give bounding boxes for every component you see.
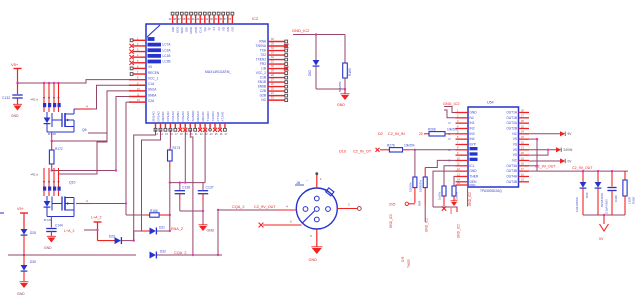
- resistor R82: [442, 186, 446, 196]
- junction V5+ rail: [16, 82, 18, 84]
- svg-text:100R/5%: 100R/5%: [419, 180, 423, 192]
- svg-text:NC: NC: [261, 98, 266, 102]
- wire IC2 left pin row to Q10 rail: [59, 91, 130, 174]
- svg-text:IN3: IN3: [470, 132, 475, 136]
- wire U54 pin 11 to R82: [444, 166, 456, 186]
- svg-text:D31: D31: [159, 225, 165, 229]
- junction clamp bottom: [344, 88, 346, 90]
- svg-text:T1AOO: T1AOO: [206, 111, 210, 122]
- svg-text:D62: D62: [308, 70, 312, 76]
- capacitor C144: [50, 217, 52, 228]
- net 2V5 stub: [405, 202, 408, 205]
- svg-text:D28: D28: [30, 231, 36, 235]
- svg-text:OS: OS: [231, 27, 235, 31]
- svg-text:BZX84C10: BZX84C10: [600, 192, 604, 207]
- svg-text:OUT2B: OUT2B: [506, 126, 517, 130]
- resistor pack drops to Q6: [43, 83, 45, 97]
- wire CQA_2 riser to J6: [217, 210, 219, 255]
- IC2 right pins with pads: [268, 41, 285, 43]
- op U54 body: [468, 107, 519, 187]
- svg-text:GN: GN: [226, 27, 230, 32]
- svg-text:AGNDO: AGNDO: [191, 110, 195, 122]
- svg-text:THER: THER: [407, 259, 411, 268]
- svg-text:ICL: ICL: [470, 164, 475, 168]
- svg-text:20: 20: [419, 132, 423, 136]
- ground GND bottom left: [20, 283, 28, 288]
- svg-text:C137: C137: [206, 186, 214, 190]
- power arrow 9V: [560, 131, 565, 136]
- op IC2 body: [146, 24, 268, 123]
- svg-text:NC: NC: [470, 116, 475, 120]
- svg-text:−: −: [306, 179, 308, 183]
- ground GND below C132: [14, 106, 22, 111]
- svg-text:THER: THER: [470, 174, 479, 178]
- diode D33 at Q6 source: [46, 112, 48, 118]
- net label C2_9V_OUT at pin: [529, 165, 537, 167]
- svg-text:VSSAO: VSSAO: [186, 110, 190, 121]
- diode D32 row / net CQA_2: [150, 252, 156, 259]
- svg-text:MAX1491GATM_: MAX1491GATM_: [205, 70, 231, 74]
- wire Q10 drain net to R186: [125, 102, 127, 215]
- svg-text:VS: VS: [513, 142, 517, 146]
- svg-text:SN1AO: SN1AO: [151, 111, 155, 122]
- power arrow 24V/N: [556, 147, 561, 152]
- svg-text:R163: R163: [348, 68, 352, 76]
- svg-text:BYP: BYP: [470, 142, 476, 146]
- wire V5+ rail: [18, 80, 130, 83]
- wire U54 out to 9V arrow: [529, 133, 560, 135]
- resistor R30A: [624, 171, 626, 180]
- svg-text:IN4: IN4: [470, 137, 475, 141]
- wire R172 row to IC2: [52, 170, 116, 172]
- U54 right pins: [519, 112, 530, 114]
- stubs Q10 gate: [43, 191, 45, 196]
- pin 1 stub of J6: [316, 175, 318, 188]
- svg-text:GND_IC2: GND_IC2: [457, 224, 461, 238]
- svg-text:IN2: IN2: [470, 126, 475, 130]
- svg-text:T2AOO: T2AOO: [211, 111, 215, 122]
- wire IC2 bottom pin to C137: [204, 130, 206, 183]
- svg-text:RNA: RNA: [259, 40, 267, 44]
- wire U54 to 24V arrow: [529, 149, 556, 151]
- junction D29/D31: [133, 239, 135, 241]
- wire cap feed rail: [170, 182, 205, 184]
- svg-text:OUT2A: OUT2A: [506, 121, 518, 125]
- wire U54 pin 12 riser: [433, 171, 456, 207]
- svg-text:GND: GND: [207, 229, 215, 233]
- svg-text:1N4148WS: 1N4148WS: [575, 197, 579, 212]
- svg-text:L+A_2: L+A_2: [91, 216, 102, 220]
- svg-text:C2A: C2A: [148, 99, 155, 103]
- svg-text:GND_IC2: GND_IC2: [292, 28, 310, 33]
- svg-text:24V/N: 24V/N: [564, 148, 574, 152]
- wire Q10 drain: [76, 203, 92, 205]
- svg-text:LC2A: LC2A: [163, 48, 172, 52]
- svg-text:CLK: CLK: [198, 27, 202, 33]
- wire IC2 bottom pin to D29 rail: [134, 130, 156, 241]
- junction cap common: [202, 210, 204, 212]
- svg-text:TXA: TXA: [260, 49, 267, 53]
- wire U54 VS riser: [529, 138, 537, 140]
- svg-text:TPA3005D2AQ: TPA3005D2AQ: [480, 189, 502, 193]
- svg-text:C136: C136: [182, 186, 190, 190]
- svg-text:QA: QA: [203, 27, 207, 31]
- edge stub: [0, 212, 4, 214]
- svg-text:TX2: TX2: [260, 53, 266, 57]
- svg-text:V5+: V5+: [11, 62, 19, 67]
- junction L+A_2: [96, 229, 98, 231]
- svg-text:VS: VS: [513, 153, 517, 157]
- svg-text:D2: D2: [378, 132, 383, 136]
- svg-text:C144: C144: [55, 224, 63, 228]
- svg-text:C306: C306: [614, 195, 618, 202]
- svg-text:C1A: C1A: [148, 82, 155, 86]
- svg-text:R84: R84: [418, 200, 422, 206]
- svg-text:GND: GND: [470, 169, 478, 173]
- wire Q10 source loop: [73, 210, 75, 217]
- svg-text:RECEN: RECEN: [148, 71, 160, 75]
- svg-text:1k/5%: 1k/5%: [455, 192, 459, 200]
- wire U54 to 0V arrow: [529, 160, 560, 162]
- wire J6 pin 5 no-connect: [263, 224, 302, 226]
- diode D29 row: [98, 240, 115, 242]
- capacitor C137: [202, 183, 204, 190]
- junction R172 bottom: [51, 169, 53, 171]
- svg-text:OUT1A: OUT1A: [506, 111, 518, 115]
- wire to D31 row: [133, 231, 135, 241]
- svg-text:SDI: SDI: [185, 27, 189, 32]
- svg-text:GND: GND: [449, 208, 453, 214]
- svg-text:TXENA: TXENA: [255, 44, 267, 48]
- junction R186 right: [169, 214, 171, 216]
- U54 left pins: [456, 112, 469, 114]
- svg-text:C2B: C2B: [260, 89, 266, 93]
- svg-text:VS: VS: [513, 148, 517, 152]
- svg-text:GND: GND: [44, 246, 52, 250]
- svg-text:▪R2 d: ▪R2 d: [31, 173, 39, 177]
- svg-text:C2_9V_OUT: C2_9V_OUT: [254, 205, 276, 209]
- svg-text:R266: R266: [428, 128, 436, 132]
- svg-text:REF0O: REF0O: [161, 111, 165, 122]
- svg-text:SDO: SDO: [180, 26, 184, 33]
- svg-text:NC: NC: [512, 158, 517, 162]
- svg-text:GND: GND: [309, 258, 318, 262]
- svg-text:OUT3A: OUT3A: [506, 164, 518, 168]
- junction GND_IC2: [315, 33, 317, 35]
- svg-text:2V5: 2V5: [389, 203, 395, 207]
- svg-text:D: D: [448, 121, 450, 125]
- svg-text:VCC_1: VCC_1: [148, 76, 159, 80]
- svg-text:1k/5%: 1k/5%: [438, 192, 442, 200]
- wire Q6 source loop: [73, 127, 75, 133]
- svg-text:0.1uF/630V: 0.1uF/630V: [605, 199, 609, 214]
- ground GND below C144: [47, 238, 55, 243]
- ground 0V open arrow: [603, 215, 605, 224]
- svg-text:LC7A: LC7A: [163, 43, 172, 47]
- svg-text:V5+: V5+: [17, 207, 25, 211]
- junctions on V5+ rail: [43, 82, 45, 84]
- svg-text:▪R2 d: ▪R2 d: [31, 98, 39, 102]
- svg-text:Q6: Q6: [82, 128, 87, 132]
- resistor pack drops to Q10: [43, 168, 45, 181]
- svg-text:LC1B: LC1B: [163, 54, 171, 58]
- resistor R233: [423, 177, 427, 188]
- svg-text:C2_9V_OUT: C2_9V_OUT: [535, 165, 556, 169]
- svg-text:GND: GND: [17, 292, 25, 296]
- svg-text:50R/5%: 50R/5%: [338, 81, 342, 92]
- IC2 top pins with pads: [171, 12, 174, 15]
- capacitor C136: [179, 181, 181, 183]
- svg-text:FR2: FR2: [260, 62, 266, 66]
- svg-text:X2: X2: [217, 27, 221, 31]
- junction lower-left rail: [23, 254, 25, 256]
- wire J6 pin 3 to ground: [316, 229, 318, 247]
- svg-text:CQA_2: CQA_2: [174, 251, 186, 255]
- resistor R81: [452, 186, 456, 196]
- svg-text:C2_IN_IN: C2_IN_IN: [388, 132, 405, 136]
- svg-text:SN6B: SN6B: [258, 85, 266, 89]
- junction Q6 gate rail: [51, 140, 53, 142]
- capacitor C132: [17, 83, 19, 94]
- svg-text:R276: R276: [387, 143, 395, 147]
- svg-text:PAD: PAD: [470, 183, 477, 187]
- svg-text:OUT4B: OUT4B: [506, 180, 517, 184]
- svg-text:IC2: IC2: [252, 16, 259, 21]
- diode D31 row / net ENA_2: [142, 230, 150, 232]
- wire U54 pin 13 to R81: [454, 176, 456, 186]
- svg-text:CP2BO: CP2BO: [176, 111, 180, 122]
- diode D34 at Q10 source: [46, 196, 48, 201]
- svg-text:REG1O: REG1O: [196, 110, 200, 121]
- ground GND clamp: [344, 89, 346, 94]
- svg-text:U54: U54: [487, 101, 494, 105]
- wire J6 pin 2: [337, 208, 357, 210]
- svg-text:GND: GND: [470, 111, 478, 115]
- svg-text:GND: GND: [11, 114, 19, 118]
- svg-text:IN1: IN1: [470, 121, 475, 125]
- resistor R173: [169, 130, 171, 148]
- svg-text:CN2AO: CN2AO: [181, 110, 185, 121]
- junction snubber bottom: [603, 214, 605, 216]
- svg-text:10k/5%: 10k/5%: [447, 128, 458, 132]
- IC2 bottom pins with pads: [155, 123, 157, 128]
- svg-text:GND: GND: [337, 103, 345, 107]
- svg-text:XT2AO: XT2AO: [221, 111, 225, 122]
- svg-text:C2_IN_OT: C2_IN_OT: [353, 149, 372, 153]
- svg-text:R172: R172: [55, 147, 63, 151]
- transistor Q10 (MOSFET): [61, 197, 63, 211]
- wire R276 node to R84: [414, 150, 416, 177]
- wire IC2 left pin to Q10 drain: [126, 101, 129, 103]
- svg-text:C1B: C1B: [260, 76, 266, 80]
- svg-text:LC2B: LC2B: [163, 60, 171, 64]
- wire nested VS bend: [529, 150, 548, 155]
- svg-text:C2_9V_OUT: C2_9V_OUT: [572, 166, 593, 170]
- power arrow 0V: [560, 158, 565, 163]
- svg-text:CN1AO: CN1AO: [171, 110, 175, 121]
- transistor Q6 (MOSFET): [61, 113, 63, 127]
- svg-text:VS: VS: [513, 137, 517, 141]
- wire IC2 bottom pin to cap rail: [184, 130, 186, 183]
- svg-text:SN1A: SN1A: [148, 88, 157, 92]
- svg-text:C132: C132: [2, 96, 10, 100]
- svg-text:SCK: SCK: [175, 27, 179, 33]
- svg-text:OUT1B: OUT1B: [506, 116, 517, 120]
- wire J6 pin 4 / net CQA_2 C2_9V_OUT: [218, 209, 277, 211]
- ground GND below C137: [202, 211, 204, 225]
- junction R173 net: [169, 181, 171, 183]
- wire GND_IC2 to pin 1: [444, 107, 456, 113]
- svg-text:D60: D60: [585, 192, 589, 198]
- diode D60: [582, 171, 584, 182]
- svg-text:D35: D35: [30, 260, 36, 264]
- wire Q6 drain to IC2 pin: [74, 108, 76, 110]
- wire riser to GND_IC2 leg: [433, 207, 457, 212]
- svg-text:SN6A: SN6A: [148, 93, 157, 97]
- wire GND_IC2 rail: [293, 34, 345, 36]
- connector J6 body: [296, 188, 337, 229]
- svg-text:XT1AO: XT1AO: [216, 111, 220, 122]
- junctions snubber top rail: [582, 170, 584, 172]
- svg-text:D10: D10: [339, 149, 346, 153]
- svg-text:Q10: Q10: [69, 181, 76, 185]
- svg-text:0V: 0V: [599, 237, 604, 241]
- wire IC2 bottom pin to CQA_2 rail: [190, 130, 193, 256]
- svg-text:GND_IC2: GND_IC2: [389, 214, 393, 228]
- svg-text:TF: TF: [208, 27, 212, 31]
- svg-text:CP2AO: CP2AO: [166, 111, 170, 122]
- svg-text:TXEN2: TXEN2: [256, 58, 267, 62]
- wire Q6 gate row: [52, 133, 107, 141]
- svg-text:SN1B: SN1B: [258, 80, 266, 84]
- wire U54 pin 10 to R233: [425, 160, 455, 167]
- svg-text:G2B: G2B: [260, 94, 266, 98]
- resistor R163: [344, 35, 346, 64]
- svg-text:R30A: R30A: [632, 197, 636, 204]
- svg-text:D:R: D:R: [401, 256, 405, 262]
- svg-text:D29: D29: [109, 234, 115, 238]
- svg-text:X1: X1: [212, 27, 216, 31]
- wire snubber bottom rail: [583, 214, 625, 216]
- svg-text:GND_IC2: GND_IC2: [468, 192, 472, 206]
- svg-text:ENA_2: ENA_2: [171, 227, 183, 231]
- junction CQA_2 to J6: [217, 254, 219, 256]
- svg-text:OUT4A: OUT4A: [506, 174, 518, 178]
- wire GND_IC2 to pin 2: [444, 110, 456, 118]
- svg-text:L/B: L/B: [261, 67, 266, 71]
- wire ENA rail (long horizontal): [8, 254, 136, 256]
- net stub GND_IC2 below U54 pad: [467, 188, 469, 207]
- svg-text:CQA_2: CQA_2: [232, 205, 244, 209]
- svg-text:R173: R173: [173, 146, 181, 150]
- svg-text:GND: GND: [189, 26, 193, 34]
- resistor R172: [51, 141, 53, 150]
- diode D28: [21, 229, 28, 235]
- svg-text:GND_IC2: GND_IC2: [443, 102, 459, 106]
- svg-text:10k/5%: 10k/5%: [409, 182, 413, 192]
- resistor R186: [146, 214, 150, 216]
- wire clamp bottom: [316, 88, 345, 90]
- svg-text:D: D: [448, 137, 450, 141]
- diode D35: [23, 255, 25, 265]
- svg-text:CP1AO: CP1AO: [156, 111, 160, 122]
- U54 pad pin 29: [456, 184, 469, 186]
- ground GND below J6: [312, 248, 322, 254]
- wire IC2 pin to D31 row: [142, 130, 161, 232]
- svg-text:NC: NC: [512, 132, 517, 136]
- junction R276 node: [414, 149, 416, 151]
- svg-text:R186: R186: [150, 209, 158, 213]
- wire 9V rail to snubber: [529, 170, 537, 172]
- svg-text:REF2O: REF2O: [201, 111, 205, 122]
- resistor R84: [413, 177, 417, 188]
- svg-text:VCC_2: VCC_2: [256, 71, 267, 75]
- svg-text:OUT3B: OUT3B: [506, 169, 517, 173]
- capacitor C306: [611, 171, 613, 186]
- svg-text:VDD: VDD: [194, 26, 198, 33]
- svg-text:10k/5%: 10k/5%: [404, 143, 415, 147]
- svg-text:D32: D32: [160, 249, 166, 253]
- diode D61 (zener): [597, 171, 599, 182]
- wire cap commons: [180, 210, 203, 212]
- svg-text:V5: V5: [148, 65, 152, 69]
- wire IC2 left pin to R172 node: [116, 97, 129, 171]
- svg-text:MD: MD: [171, 26, 175, 31]
- diode D62: [315, 35, 317, 61]
- svg-text:L+A_2: L+A_2: [64, 229, 75, 233]
